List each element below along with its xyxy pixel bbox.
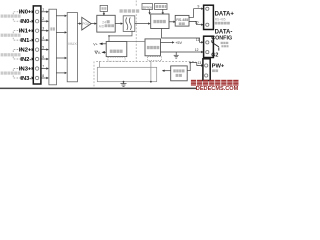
svg-text:2: 2 <box>42 17 44 21</box>
svg-text:IN3-: IN3- <box>20 76 31 82</box>
svg-text:8: 8 <box>42 74 44 78</box>
svg-text:4: 4 <box>42 36 44 40</box>
svg-text:11: 11 <box>196 38 200 42</box>
svg-text:IN3+: IN3+ <box>19 66 32 72</box>
svg-text:EEPROM: EEPROM <box>143 5 153 9</box>
svg-text:3: 3 <box>42 27 44 31</box>
svg-text:V+: V+ <box>93 43 98 47</box>
svg-text:PGA: PGA <box>82 22 90 26</box>
svg-text:DEDECMS.COM: DEDECMS.COM <box>196 86 239 92</box>
svg-text:IN2+: IN2+ <box>19 48 32 54</box>
svg-text:10: 10 <box>195 20 199 24</box>
svg-text:IN1+: IN1+ <box>19 29 32 35</box>
svg-text:1: 1 <box>42 8 44 12</box>
svg-text:RS-485: RS-485 <box>215 18 226 22</box>
svg-text:13: 13 <box>198 61 202 65</box>
svg-text:IN0-: IN0- <box>20 19 31 25</box>
svg-text:MUX: MUX <box>68 42 77 46</box>
svg-text:+5V: +5V <box>175 41 182 45</box>
svg-text:7: 7 <box>42 64 44 68</box>
svg-text:RS-485: RS-485 <box>176 18 188 22</box>
svg-text:G2: G2 <box>211 52 218 58</box>
svg-text:PW+: PW+ <box>212 64 225 70</box>
svg-text:5: 5 <box>42 45 44 49</box>
svg-text:12: 12 <box>195 48 199 52</box>
svg-text:IN1-: IN1- <box>20 38 31 44</box>
svg-text:9: 9 <box>198 4 200 8</box>
svg-text:IN2-: IN2- <box>20 57 31 63</box>
svg-text:CONFIG: CONFIG <box>211 35 232 41</box>
svg-text:A/D: A/D <box>99 24 105 28</box>
svg-text:6: 6 <box>42 55 44 59</box>
svg-text:IN0+: IN0+ <box>19 10 32 16</box>
